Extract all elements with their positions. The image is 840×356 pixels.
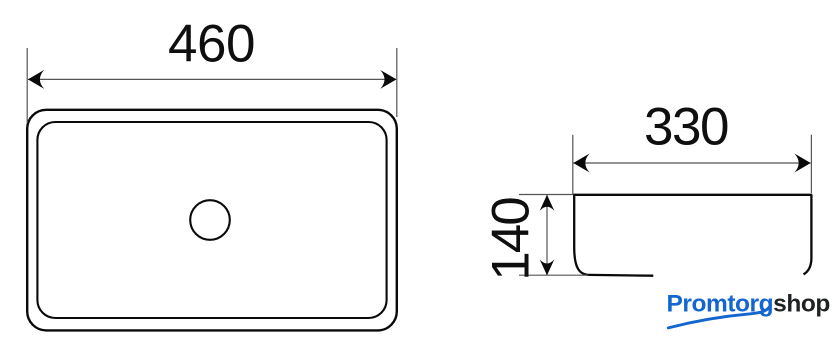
dim 140: bottom arrowhead bbox=[540, 259, 555, 275]
svg-text:140: 140 bbox=[482, 198, 541, 281]
dim 140: bottom extension line bbox=[519, 274, 588, 276]
dim 460: left extension line bbox=[26, 48, 28, 123]
side view: left edge with bottom curve bbox=[574, 195, 653, 276]
dim 330: dimension line bbox=[574, 162, 811, 164]
dim 140: dimension line bbox=[546, 195, 548, 275]
dim 460: left arrowhead bbox=[28, 70, 44, 89]
svg-text:460: 460 bbox=[168, 14, 255, 73]
side view: right edge with bottom hook bbox=[804, 195, 812, 275]
dim 330: left extension line bbox=[572, 135, 574, 194]
dim 460: dimension line bbox=[28, 78, 396, 80]
dim 330: right extension line bbox=[810, 135, 812, 193]
dim 460: right extension line bbox=[396, 48, 398, 117]
svg-text:330: 330 bbox=[644, 98, 728, 157]
dim 460: right arrowhead bbox=[380, 70, 396, 89]
basin top view: outer rim bbox=[27, 110, 397, 331]
dim 330: left arrowhead bbox=[573, 154, 589, 173]
dim 330: right arrowhead bbox=[794, 154, 810, 173]
dim 140: top extension line bbox=[519, 194, 574, 196]
side view: top edge bbox=[573, 194, 812, 196]
svg-text:Promtorgshop: Promtorgshop bbox=[667, 291, 830, 318]
dim 140: top arrowhead bbox=[540, 195, 555, 211]
drain hole bbox=[190, 200, 230, 240]
basin top view: inner rim bbox=[37, 122, 386, 318]
logo swoosh bbox=[668, 305, 770, 328]
